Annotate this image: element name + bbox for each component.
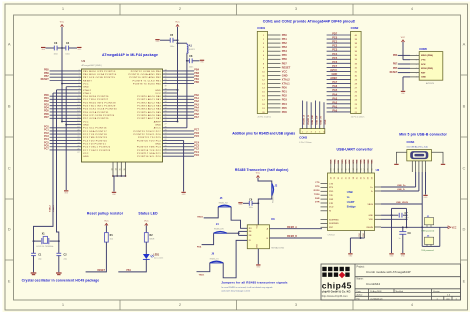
svg-text:43: 43 [165,73,167,75]
svg-text:10: 10 [77,98,79,100]
svg-text:PCINT6 ADC6 PA6: PCINT6 ADC6 PA6 [137,114,161,117]
wire XTAL1 from U1 [34,93,54,253]
svg-text:VCC: VCC [282,69,288,73]
svg-text:XTAL2: XTAL2 [282,77,290,81]
svg-text:1u: 1u [399,238,401,240]
solder jumper J3 [424,237,433,244]
svg-text:Jumpers for all RS485 transcei: Jumpers for all RS485 transceiver signal… [221,280,287,284]
svg-text:A: A [8,41,11,46]
svg-text:38: 38 [165,89,167,91]
U2 right pins [375,186,382,188]
svg-text:10.Aug.2008: 10.Aug.2008 [370,290,382,293]
svg-text:RS485_A: RS485_A [287,226,297,229]
wire LED to pin net [118,259,146,272]
svg-text:VCC: VCC [83,121,89,123]
svg-text:VCC: VCC [155,93,161,95]
wire VCC to cap junction [61,27,63,48]
svg-text:PB6: PB6 [393,55,398,57]
svg-text:RS485_TX: RS485_TX [210,258,220,260]
svg-text:GND: GND [155,90,161,92]
capacitor C5 [160,39,170,41]
svg-text:In case RS485 is not used, it: In case RS485 is not used, it will not d… [221,286,272,289]
svg-text:RTS: RTS [349,159,351,164]
svg-text:38: 38 [368,168,370,170]
svg-text:PB7: PB7 [393,64,398,66]
svg-text:VCC: VCC [401,37,406,39]
svg-text:CON4: CON4 [407,140,415,144]
svg-text:REGIN: REGIN [367,227,374,229]
svg-text:C: C [8,165,11,170]
CON4 bottom pins [411,161,413,172]
svg-text:PCINT5 ADC5 PA5: PCINT5 ADC5 PA5 [137,111,161,114]
frame row ticks right [461,74,468,76]
svg-text:PC1: PC1 [332,40,338,44]
svg-text:CON5: CON5 [419,47,427,51]
svg-text:PA7: PA7 [332,80,337,84]
jumper J2 [272,184,274,196]
svg-text:100n: 100n [65,54,69,56]
svg-text:100n: 100n [170,46,174,48]
svg-text:PCINT2 ADC2 PA2: PCINT2 ADC2 PA2 [137,101,161,104]
svg-text:PCINT1 ADC1 PA1: PCINT1 ADC1 PA1 [137,98,161,101]
svg-text:22: 22 [77,136,79,138]
svg-text:9: 9 [78,95,79,97]
op IC U3 RS485 body [247,225,269,249]
svg-text:Crumb module with ATmega644P: Crumb module with ATmega644P [366,270,411,274]
svg-text:PD7: PD7 [332,32,338,36]
svg-text:CTS: CTS [315,182,320,184]
CON3 riser wires and labels [302,101,304,129]
ground below right of U1 [181,192,185,193]
svg-text:PA5: PA5 [332,88,337,92]
svg-text:20 Pin 2.54mm: 20 Pin 2.54mm [351,116,365,118]
ground below U2 [348,253,352,254]
svg-text:32: 32 [165,108,167,110]
svg-text:XTAL2: XTAL2 [83,89,92,92]
wire U3 gnd [257,249,259,265]
connector CON5 body [419,52,443,81]
svg-text:RTS: RTS [329,187,334,189]
solder jumper J1 [424,218,433,225]
ground left rail [64,190,68,191]
ground left of C5 [155,39,159,40]
svg-text:PD6: PD6 [282,110,288,114]
svg-text:VCC: VCC [144,221,149,223]
svg-text:15: 15 [77,114,79,116]
wire CON4 VBUS drop [421,172,423,204]
svg-text:GND: GND [332,72,338,76]
svg-text:U3: U3 [271,217,275,221]
svg-text:RST: RST [421,72,426,74]
svg-text:PD7 OC2A PCINT25: PD7 OC2A PCINT25 [83,117,109,120]
svg-text:USB_VBUS: USB_VBUS [396,202,408,204]
svg-text:31: 31 [342,168,344,170]
svg-text:MOSI (PB5): MOSI (PB5) [421,68,433,70]
svg-text:29: 29 [165,117,167,119]
svg-text:MISO (PB6): MISO (PB6) [421,55,433,57]
svg-text:PD0: PD0 [282,86,288,90]
CON2 pins and net labels [327,34,351,36]
svg-text:100n: 100n [189,66,193,68]
svg-text:PC3: PC3 [332,48,338,52]
svg-text:31: 31 [165,111,167,113]
svg-text:RXD0: RXD0 [314,190,321,192]
svg-text:27: 27 [77,152,79,154]
svg-text:LED1: LED1 [153,255,160,257]
wire U2 REGIN [381,226,403,228]
svg-text:HC49 14.7456MHz: HC49 14.7456MHz [36,246,53,248]
svg-text:PCINT8 T0 XCK0 PB0: PCINT8 T0 XCK0 PB0 [133,83,162,85]
svg-text:20: 20 [165,145,167,147]
svg-text:PD3 TXD1 INT1 PCINT29: PD3 TXD1 INT1 PCINT29 [83,106,116,108]
connector CON3 body [300,129,325,134]
svg-text:CON1 and CON2 provide ATmega64: CON1 and CON2 provide ATmega644P DIP40 p… [263,20,356,24]
svg-text:DTR: DTR [315,202,320,204]
svg-text:PC5: PC5 [194,135,199,138]
svg-text:SUSPEND: SUSPEND [329,219,339,221]
svg-text:PB1: PB1 [282,37,288,41]
svg-text:6: 6 [416,77,417,79]
svg-text:RESET: RESET [97,270,105,272]
svg-text:USB: USB [347,190,353,194]
power VCC reset [105,223,108,225]
svg-text:PCINT20 TDO PC4: PCINT20 TDO PC4 [137,140,162,142]
wire J4 left [202,233,214,244]
svg-text:23: 23 [77,139,79,141]
svg-text:B: B [463,103,466,108]
svg-text:37: 37 [364,177,366,179]
capacitor C3 [46,47,55,49]
svg-text:Bridge: Bridge [347,205,356,209]
svg-text:16: 16 [77,117,79,119]
svg-text:VCC: VCC [104,221,109,223]
wire J4 right to U3 RE DE [227,232,239,234]
svg-text:PD4 XCK1 OC1B PCINT30: PD4 XCK1 OC1B PCINT30 [83,109,117,111]
svg-text:1: 1 [416,55,417,57]
svg-text:PB3: PB3 [282,45,288,49]
svg-text:7: 7 [78,89,79,91]
power VCC led [145,223,148,225]
capacitor C6 [243,202,249,204]
svg-text:PCINT11 OC0A AIN1 PB3: PCINT11 OC0A AIN1 PB3 [128,73,161,76]
svg-text:20 Pin 2.54mm: 20 Pin 2.54mm [258,116,272,118]
svg-text:PCINT21 TDI PC5: PCINT21 TDI PC5 [138,137,161,139]
wire J5 left [204,207,219,218]
svg-text:PC4: PC4 [332,52,338,56]
svg-text:U2: U2 [376,168,380,172]
svg-text:PD1: PD1 [282,90,288,94]
capacitor C2 [56,252,61,254]
svg-text:TXD0: TXD0 [314,194,320,196]
wire U2 GND net [381,214,392,216]
svg-text:TXD: TXD [357,159,359,164]
svg-text:19: 19 [165,149,167,151]
svg-text:PB1: PB1 [126,270,131,272]
svg-text:VCC: VCC [452,227,457,229]
svg-text:20: 20 [77,130,79,132]
svg-text:PC7: PC7 [332,64,338,68]
wire A1 to C8 [186,53,188,61]
svg-text:PD0 RXD0 PCINT26: PD0 RXD0 PCINT26 [83,96,109,98]
svg-text:6 Pin 2.54mm: 6 Pin 2.54mm [299,142,312,144]
svg-text:AREF: AREF [330,76,337,80]
ground below U1 [112,192,116,193]
svg-text:RESET: RESET [83,80,92,82]
svg-text:GND: GND [363,232,365,237]
svg-text:crumb644.sch: crumb644.sch [370,298,383,300]
svg-text:VCC: VCC [256,173,261,175]
frame column ticks bottom [119,300,121,310]
svg-text:5: 5 [416,72,417,74]
svg-text:PC3 TMS PCINT19: PC3 TMS PCINT19 [83,137,108,139]
title block outline [321,264,461,300]
svg-text:USB powered: USB powered [421,229,435,232]
svg-text:38: 38 [368,177,370,179]
svg-text:VCC: VCC [83,153,89,155]
svg-text:RS485_B: RS485_B [307,115,310,125]
svg-text:3: 3 [416,64,417,66]
capacitor C1 [31,252,36,254]
connector CON1 body [257,31,267,113]
svg-text:PC7: PC7 [44,148,49,151]
svg-text:18: 18 [165,152,167,154]
svg-text:USB_DP: USB_DP [316,115,318,124]
svg-text:PC5 TDI PCINT21: PC5 TDI PCINT21 [83,143,106,145]
svg-text:GND: GND [83,125,89,127]
ground below CON5 [401,91,405,92]
chip45 logo [322,267,326,271]
svg-text:36: 36 [165,95,167,97]
svg-text:VDD: VDD [369,219,374,221]
svg-text:RESET: RESET [282,65,291,69]
svg-text:Reset pullup resistor: Reset pullup resistor [87,211,124,215]
svg-text:chip45: chip45 [322,281,352,291]
svg-text:37: 37 [364,168,366,170]
svg-text:PCINT4 ADC4 PA4: PCINT4 ADC4 PA4 [137,108,161,111]
svg-text:PCINT7 ADC7 PA7: PCINT7 ADC7 PA7 [137,117,161,120]
svg-text:VCC: VCC [175,22,180,24]
svg-text:21: 21 [77,133,79,135]
svg-text:CTS: CTS [353,159,355,164]
svg-text:PC2 TCK PCINT18: PC2 TCK PCINT18 [83,134,107,136]
svg-text:PC7 TOSC2 PCINT23: PC7 TOSC2 PCINT23 [83,150,111,152]
svg-text:36: 36 [124,168,126,170]
LED LED1 [145,242,147,254]
wire CON4 pin5 to ground [425,172,427,195]
wire right gnd drop [183,140,185,191]
wire U2 D- to CON4 [381,190,419,192]
svg-text:SCK: SCK [421,64,426,66]
svg-text:B: B [8,103,11,108]
svg-text:PD4: PD4 [282,102,288,106]
power VCC above C5 [176,25,179,27]
wire AVCC feed [186,61,188,128]
svg-text:SUS: SUS [331,159,333,164]
svg-text:chip45 GmbH & Co. KG: chip45 GmbH & Co. KG [322,290,351,294]
inductor A1 ferrite bead [178,42,187,44]
svg-text:D: D [8,226,11,231]
svg-text:RS485_RX: RS485_RX [219,203,229,205]
power VCC above C3 C4 [60,25,63,27]
wire RS485_A [270,228,323,230]
svg-text:RESET: RESET [41,78,50,81]
svg-text:USB_D-: USB_D- [397,189,405,191]
svg-text:12: 12 [77,104,79,106]
wire J6 left [197,263,210,272]
crystal X1 [34,240,42,242]
svg-text:36: 36 [360,177,362,179]
svg-text:Crumb644: Crumb644 [366,282,380,286]
svg-text:RS485 Transceiver (half duplex: RS485 Transceiver (half duplex) [235,168,289,172]
svg-text:100n: 100n [53,54,57,56]
svg-text:36: 36 [360,168,362,170]
svg-text:PC0: PC0 [332,36,338,40]
svg-text:2: 2 [416,60,417,62]
svg-text:VTG: VTG [421,60,426,62]
svg-text:U1: U1 [82,59,86,63]
svg-text:RS485_A: RS485_A [303,115,306,125]
svg-text:low current: low current [154,256,164,259]
svg-text:XTAL1: XTAL1 [282,82,290,86]
svg-text:RS485_VCC: RS485_VCC [273,192,275,203]
svg-text:14: 14 [77,111,79,113]
U2 top pins [330,160,332,173]
svg-text:RS485_B: RS485_B [287,235,297,238]
svg-text:TXD: TXD [329,195,334,197]
svg-text:A: A [463,41,466,46]
svg-text:PCINT12 OC0B SS PB4: PCINT12 OC0B SS PB4 [131,71,162,73]
svg-text:PCINT19 TMS PC3: PCINT19 TMS PC3 [137,147,162,149]
wire U2 D+ to CON4 [381,186,416,188]
wire J2 to U3 VCC [258,196,272,225]
svg-text:Addition pins for RS485 and US: Addition pins for RS485 and USB signals [232,131,295,135]
svg-text:29: 29 [334,177,336,179]
svg-text:32: 32 [345,168,347,170]
svg-text:GND: GND [83,156,89,158]
svg-text:PC6 TOSC1 PCINT22: PC6 TOSC1 PCINT22 [83,147,111,149]
svg-text:4: 4 [78,79,79,81]
svg-text:28: 28 [331,177,333,179]
svg-text:23: 23 [165,136,167,138]
svg-text:RXD: RXD [360,159,362,164]
ground right of C4 [77,47,81,48]
svg-text:DCD: DCD [329,207,334,209]
U2 bottom pins [360,231,362,239]
svg-text:35: 35 [357,177,359,179]
svg-text:25: 25 [77,145,79,147]
svg-text:31: 31 [342,177,344,179]
CON5 pins [410,54,419,56]
svg-text:RESET: RESET [390,72,398,74]
svg-text:19: 19 [77,126,79,128]
wire U1 bottom gnd join [113,175,125,177]
svg-text:GND: GND [282,73,288,77]
svg-text:GND: GND [369,215,374,217]
ground below C7 [389,253,393,254]
svg-text:PD5 OC1A PCINT31: PD5 OC1A PCINT31 [83,111,109,114]
svg-text:35: 35 [120,168,122,170]
svg-text:25: 25 [165,130,167,132]
ground right of C8 [200,60,204,61]
svg-text:PCINT17 SDA PC1: PCINT17 SDA PC1 [137,152,161,155]
svg-text:PC0 SCL PCINT16: PC0 SCL PCINT16 [83,128,107,130]
CON5 wires [398,54,410,56]
svg-text:GND: GND [155,143,161,145]
svg-text:CP2102: CP2102 [328,235,336,237]
svg-text:PB7 SCK OC3B PCINT15: PB7 SCK OC3B PCINT15 [83,77,116,79]
svg-text:C: C [463,165,466,170]
svg-text:680R: 680R [150,239,155,241]
svg-text:PD6 ICP OC2B PCINT24: PD6 ICP OC2B PCINT24 [83,115,115,117]
power VCC RS485 [256,176,259,178]
svg-text:33: 33 [349,177,351,179]
svg-text:DSR: DSR [329,199,334,201]
svg-text:GND: GND [256,243,258,248]
svg-text:AREF: AREF [154,120,162,123]
svg-text:RO: RO [249,228,252,230]
svg-text:PA4: PA4 [332,92,337,96]
svg-text:mini USB B(unThru_Tab): mini USB B(unThru_Tab) [407,146,428,149]
svg-text:GND: GND [155,125,161,127]
wire U2 VBUS [381,203,422,205]
svg-text:PC1 SDA PCINT17: PC1 SDA PCINT17 [83,130,107,133]
svg-text:1: 1 [78,70,79,72]
svg-text:SUSPEND: SUSPEND [329,223,339,225]
svg-text:34: 34 [353,177,355,179]
svg-text:26: 26 [77,149,79,151]
svg-text:ATmega644P (SMD): ATmega644P (SMD) [82,64,102,67]
svg-text:PB6: PB6 [282,57,288,61]
svg-text:PB7: PB7 [282,61,288,65]
wire power rail [403,226,448,228]
capacitor C7 [392,214,399,216]
svg-text:CON3: CON3 [299,135,307,139]
svg-text:PCINT3 ADC3 PA3: PCINT3 ADC3 PA3 [137,105,161,108]
svg-text:33: 33 [349,168,351,170]
svg-text:6: 6 [78,85,79,87]
svg-text:DSR: DSR [342,159,344,164]
ground below C9 [401,253,405,254]
svg-text:Project:: Project: [357,265,365,268]
svg-text:PCINT23 TOSC2 PC7: PCINT23 TOSC2 PC7 [134,131,162,133]
svg-text:32: 32 [345,177,347,179]
svg-text:28: 28 [331,168,333,170]
wire J6 right to U3 DI [223,240,247,277]
svg-text:PCINT0 ADC0 PA0: PCINT0 ADC0 PA0 [137,95,161,98]
wire R1 to reset net [86,242,107,272]
svg-text:RXD1: RXD1 [197,216,204,218]
svg-text:5V0 powered: 5V0 powered [421,249,434,252]
frame row ticks left [5,74,14,76]
svg-text:PC2: PC2 [332,44,338,48]
wire CON4 D+ drop [415,172,417,187]
svg-text:pgs: pgs [446,298,449,300]
svg-text:AVCC: AVCC [154,127,161,130]
svg-text:CTS: CTS [329,183,334,185]
wire VCC rail to U1 VCC pins [61,48,63,122]
svg-text:40: 40 [165,82,167,84]
U1 left pin wires and numbers [50,70,82,72]
connector CON2 body [351,31,362,113]
svg-text:USB_D+: USB_D+ [397,185,406,187]
svg-text:33: 33 [111,168,113,170]
svg-text:XTAL1: XTAL1 [83,92,92,95]
svg-text:21: 21 [165,142,167,144]
capacitor C4 [62,47,66,49]
svg-text:33: 33 [165,104,167,106]
svg-text:Modified: Modified [396,291,404,293]
svg-text:http://www.chip45.com: http://www.chip45.com [322,294,348,298]
